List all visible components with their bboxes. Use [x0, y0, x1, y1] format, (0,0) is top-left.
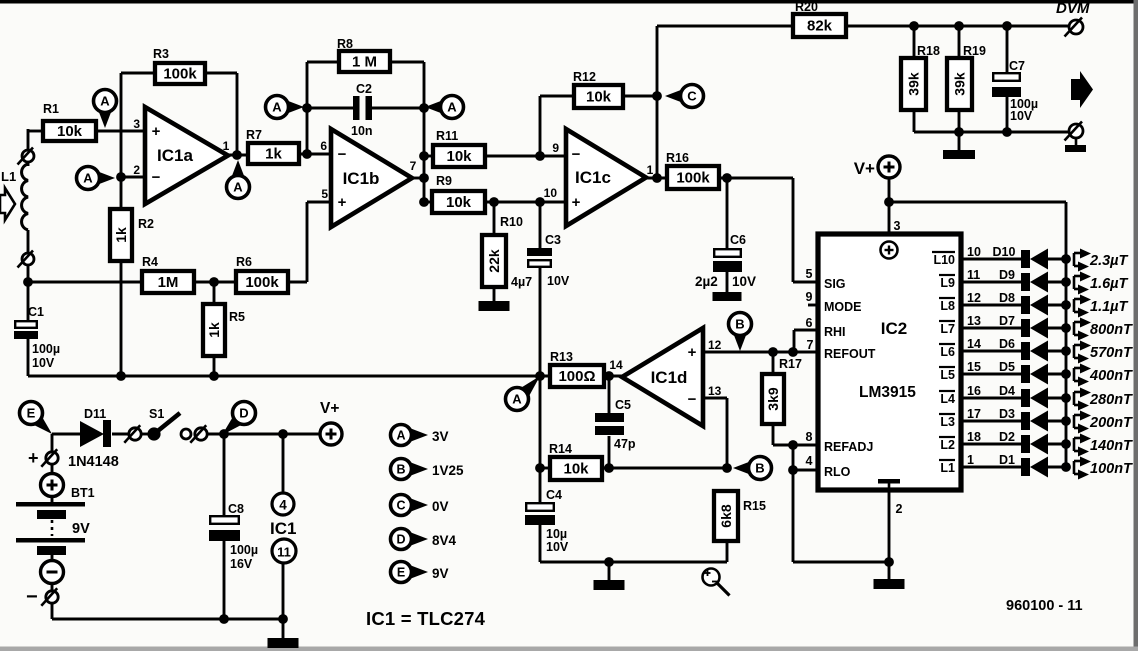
- svg-text:R10: R10: [500, 215, 523, 229]
- svg-text:8V4: 8V4: [432, 533, 457, 548]
- svg-text:10µ: 10µ: [546, 527, 567, 541]
- svg-text:7: 7: [807, 338, 814, 352]
- svg-text:A: A: [100, 94, 110, 109]
- svg-text:D: D: [239, 406, 248, 421]
- svg-text:R17: R17: [779, 357, 802, 371]
- svg-text:L8: L8: [940, 299, 955, 313]
- svg-text:L10: L10: [933, 253, 955, 267]
- svg-text:100k: 100k: [163, 66, 197, 83]
- svg-text:9: 9: [552, 141, 559, 155]
- svg-text:13: 13: [708, 384, 722, 398]
- svg-text:B: B: [735, 317, 744, 332]
- svg-text:C8: C8: [228, 502, 244, 516]
- svg-text:+: +: [152, 123, 161, 140]
- svg-text:R13: R13: [550, 350, 573, 364]
- svg-text:82k: 82k: [807, 18, 833, 35]
- svg-text:7: 7: [410, 159, 417, 173]
- svg-text:14: 14: [609, 358, 623, 372]
- svg-text:4: 4: [279, 498, 287, 513]
- svg-text:D8: D8: [999, 291, 1015, 305]
- svg-text:100k: 100k: [676, 170, 710, 187]
- svg-text:15: 15: [967, 360, 981, 374]
- svg-text:10V: 10V: [32, 356, 55, 370]
- svg-text:C6: C6: [730, 233, 746, 247]
- svg-text:IC1d: IC1d: [651, 368, 688, 387]
- svg-text:12: 12: [708, 338, 722, 352]
- svg-text:R2: R2: [138, 217, 154, 231]
- svg-text:C: C: [687, 89, 697, 104]
- svg-text:C: C: [396, 499, 405, 513]
- svg-text:D9: D9: [999, 268, 1015, 282]
- svg-text:14: 14: [967, 337, 981, 351]
- svg-text:3V: 3V: [432, 429, 449, 444]
- svg-text:4µ7: 4µ7: [511, 275, 532, 289]
- svg-text:L7: L7: [940, 322, 955, 336]
- svg-text:B: B: [396, 463, 405, 477]
- svg-text:REFADJ: REFADJ: [824, 440, 873, 454]
- svg-text:+: +: [688, 344, 697, 361]
- svg-text:1: 1: [647, 163, 654, 177]
- svg-text:+: +: [572, 194, 581, 211]
- svg-text:10k: 10k: [563, 461, 589, 478]
- svg-text:L1: L1: [1, 169, 16, 184]
- svg-text:A: A: [233, 180, 243, 195]
- svg-text:DVM: DVM: [1056, 0, 1090, 17]
- svg-text:D6: D6: [999, 337, 1015, 351]
- svg-text:A: A: [396, 429, 405, 443]
- svg-text:C7: C7: [1009, 59, 1025, 73]
- svg-text:9V: 9V: [432, 566, 449, 581]
- svg-text:D5: D5: [999, 360, 1015, 374]
- svg-text:10n: 10n: [351, 124, 373, 138]
- svg-text:11: 11: [277, 545, 291, 560]
- svg-text:2.3µT: 2.3µT: [1089, 253, 1129, 269]
- svg-text:800nT: 800nT: [1090, 322, 1133, 338]
- svg-text:0V: 0V: [432, 499, 449, 514]
- svg-text:IC1c: IC1c: [575, 168, 611, 187]
- svg-text:12: 12: [967, 291, 981, 305]
- svg-text:R4: R4: [142, 255, 158, 269]
- svg-text:D11: D11: [84, 407, 106, 421]
- svg-text:R16: R16: [666, 151, 689, 165]
- svg-text:140nT: 140nT: [1090, 438, 1133, 454]
- svg-text:D3: D3: [999, 407, 1015, 421]
- svg-text:10V: 10V: [1010, 109, 1033, 123]
- svg-text:100k: 100k: [245, 274, 279, 291]
- svg-text:L1: L1: [940, 461, 955, 475]
- svg-text:10V: 10V: [547, 274, 570, 288]
- svg-text:IC2: IC2: [881, 319, 907, 338]
- svg-text:IC1b: IC1b: [343, 169, 380, 188]
- svg-text:L6: L6: [940, 345, 955, 359]
- svg-text:1k: 1k: [206, 322, 222, 338]
- svg-text:S1: S1: [149, 407, 164, 421]
- svg-text:1.6µT: 1.6µT: [1090, 276, 1129, 292]
- svg-text:R8: R8: [337, 37, 353, 51]
- svg-text:D2: D2: [999, 430, 1015, 444]
- svg-text:RHI: RHI: [824, 325, 846, 339]
- svg-text:C3: C3: [545, 233, 561, 247]
- svg-text:D: D: [396, 533, 405, 547]
- svg-text:1k: 1k: [113, 227, 129, 243]
- svg-text:960100 - 11: 960100 - 11: [1006, 598, 1083, 614]
- svg-text:100Ω: 100Ω: [558, 368, 595, 385]
- svg-text:MODE: MODE: [824, 300, 862, 314]
- svg-text:47p: 47p: [614, 437, 636, 451]
- svg-text:10: 10: [967, 245, 981, 259]
- svg-text:E: E: [397, 566, 405, 580]
- svg-text:100µ: 100µ: [230, 543, 258, 557]
- svg-text:10k: 10k: [446, 194, 472, 211]
- svg-text:570nT: 570nT: [1090, 345, 1133, 361]
- svg-text:D1: D1: [999, 453, 1015, 467]
- svg-text:3: 3: [894, 219, 901, 233]
- svg-text:C2: C2: [356, 82, 372, 96]
- svg-text:9: 9: [806, 290, 813, 304]
- svg-text:16V: 16V: [230, 557, 253, 571]
- svg-text:39k: 39k: [906, 72, 922, 96]
- svg-text:V+: V+: [854, 159, 875, 178]
- svg-text:1: 1: [967, 453, 974, 467]
- svg-text:IC1a: IC1a: [157, 146, 193, 165]
- svg-text:R18: R18: [917, 44, 940, 58]
- svg-text:1k: 1k: [265, 146, 282, 163]
- svg-text:4: 4: [806, 454, 813, 468]
- svg-text:R9: R9: [436, 174, 452, 188]
- svg-text:−: −: [572, 146, 581, 163]
- svg-text:2µ2: 2µ2: [695, 274, 718, 289]
- svg-text:39k: 39k: [952, 72, 968, 96]
- svg-text:−: −: [338, 146, 347, 163]
- svg-text:10k: 10k: [586, 89, 612, 106]
- svg-text:C1: C1: [28, 305, 44, 319]
- svg-text:E: E: [27, 406, 36, 421]
- svg-text:10V: 10V: [546, 540, 569, 554]
- svg-text:−: −: [26, 586, 38, 608]
- svg-text:R3: R3: [153, 47, 169, 61]
- svg-text:6k8: 6k8: [718, 504, 734, 528]
- svg-text:10k: 10k: [446, 148, 472, 165]
- svg-text:R14: R14: [549, 442, 572, 456]
- svg-text:RLO: RLO: [824, 465, 851, 479]
- svg-text:IC1: IC1: [270, 519, 296, 538]
- svg-text:L3: L3: [940, 415, 955, 429]
- svg-text:280nT: 280nT: [1089, 392, 1133, 408]
- svg-text:R5: R5: [229, 310, 245, 324]
- svg-text:1V25: 1V25: [432, 463, 464, 478]
- svg-text:L9: L9: [940, 276, 955, 290]
- svg-text:D4: D4: [999, 384, 1015, 398]
- svg-text:17: 17: [967, 407, 981, 421]
- svg-text:16: 16: [967, 384, 981, 398]
- svg-text:10: 10: [544, 186, 558, 200]
- svg-text:1: 1: [223, 139, 230, 153]
- svg-text:+: +: [338, 194, 347, 211]
- svg-text:8: 8: [806, 430, 813, 444]
- svg-text:100µ: 100µ: [32, 342, 60, 356]
- svg-text:R20: R20: [795, 0, 818, 14]
- svg-text:V+: V+: [320, 400, 339, 417]
- svg-text:1M: 1M: [158, 274, 179, 291]
- svg-text:22k: 22k: [486, 249, 502, 273]
- svg-text:REFOUT: REFOUT: [824, 347, 876, 361]
- svg-text:SIG: SIG: [824, 277, 846, 291]
- svg-text:L4: L4: [940, 392, 955, 406]
- svg-text:6: 6: [320, 139, 327, 153]
- svg-text:−: −: [688, 391, 697, 408]
- svg-text:13: 13: [967, 314, 981, 328]
- svg-text:R6: R6: [236, 255, 252, 269]
- svg-text:5: 5: [806, 267, 813, 281]
- svg-text:D7: D7: [999, 314, 1015, 328]
- svg-text:BT1: BT1: [71, 486, 95, 500]
- svg-text:R11: R11: [436, 129, 458, 143]
- svg-text:10k: 10k: [57, 123, 83, 140]
- svg-text:R12: R12: [573, 70, 596, 84]
- svg-text:9V: 9V: [72, 521, 90, 537]
- svg-text:100nT: 100nT: [1090, 461, 1133, 477]
- svg-text:1.1µT: 1.1µT: [1090, 299, 1129, 315]
- svg-text:R19: R19: [963, 44, 986, 58]
- svg-text:6: 6: [806, 316, 813, 330]
- svg-text:1 M: 1 M: [352, 54, 377, 71]
- svg-text:R15: R15: [743, 499, 766, 513]
- svg-text:C4: C4: [546, 488, 562, 502]
- svg-text:D10: D10: [993, 245, 1016, 259]
- svg-text:A: A: [447, 100, 457, 115]
- svg-text:B: B: [755, 461, 764, 476]
- svg-text:IC1 = TLC274: IC1 = TLC274: [366, 608, 486, 629]
- svg-text:LM3915: LM3915: [859, 384, 916, 401]
- svg-text:A: A: [272, 100, 282, 115]
- svg-text:A: A: [512, 392, 522, 407]
- svg-text:1N4148: 1N4148: [68, 454, 119, 470]
- svg-text:3k9: 3k9: [765, 387, 781, 411]
- svg-text:18: 18: [967, 430, 981, 444]
- svg-text:2: 2: [896, 502, 903, 516]
- svg-text:−: −: [152, 169, 161, 186]
- svg-text:2: 2: [133, 163, 140, 177]
- svg-text:R7: R7: [246, 128, 262, 142]
- svg-text:200nT: 200nT: [1089, 415, 1133, 431]
- svg-text:A: A: [83, 171, 93, 186]
- svg-text:3: 3: [133, 117, 140, 131]
- svg-text:5: 5: [321, 187, 328, 201]
- svg-text:R1: R1: [43, 102, 59, 116]
- svg-text:C5: C5: [615, 398, 631, 412]
- svg-text:+: +: [28, 448, 39, 468]
- svg-text:10V: 10V: [732, 274, 756, 289]
- svg-text:11: 11: [967, 268, 980, 282]
- svg-text:L5: L5: [940, 368, 955, 382]
- svg-text:L2: L2: [940, 438, 955, 452]
- svg-text:400nT: 400nT: [1089, 368, 1133, 384]
